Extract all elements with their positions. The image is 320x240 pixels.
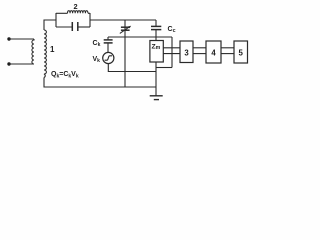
box 4 bbox=[206, 41, 221, 63]
link Zm to 3 (upper) bbox=[163, 47, 180, 49]
wire (tank bottom branch left) bbox=[56, 26, 72, 28]
wire (ground vertical) bbox=[155, 62, 157, 96]
capacitor (tank) right plate bbox=[77, 22, 79, 31]
svg-text:Zm: Zm bbox=[152, 43, 161, 51]
wire (Ck to source) bbox=[107, 43, 109, 52]
link 4 to 5 (lower) bbox=[221, 53, 234, 55]
transformer 1 primary winding bbox=[32, 39, 34, 64]
svg-text:Cc: Cc bbox=[168, 26, 176, 34]
capacitor (tank) left plate bbox=[71, 22, 73, 31]
svg-text:4: 4 bbox=[211, 48, 216, 57]
capacitor Cc bottom plate bbox=[151, 29, 161, 31]
wire (Cc to Zm) bbox=[155, 30, 157, 41]
capacitor Cc stub bbox=[155, 20, 157, 26]
source Vk circle bbox=[103, 52, 114, 63]
svg-text:3: 3 bbox=[184, 48, 189, 57]
source Vk step symbol bbox=[105, 56, 112, 60]
link 3 to 4 (upper) bbox=[193, 47, 206, 49]
wire (tank bottom branch right) bbox=[78, 26, 90, 28]
link 3 to 4 (lower) bbox=[193, 53, 206, 55]
wire (bypass bottom) bbox=[156, 67, 172, 69]
capacitor Ck bottom plate bbox=[104, 42, 113, 44]
link 4 to 5 (upper) bbox=[221, 47, 234, 49]
ground bbox=[150, 95, 163, 97]
link Zm to 3 (lower) bbox=[163, 53, 180, 55]
impedance box Zm bbox=[150, 41, 163, 63]
wire (bypass down) bbox=[171, 37, 173, 68]
box 5 bbox=[234, 41, 248, 63]
svg-text:Vk: Vk bbox=[93, 56, 101, 64]
svg-text:Ck: Ck bbox=[93, 40, 101, 48]
svg-text:Qk=CkVk: Qk=CkVk bbox=[51, 71, 79, 80]
wire bbox=[9, 63, 34, 65]
variable capacitor arrow bbox=[120, 27, 130, 34]
input terminal dot (top) bbox=[7, 37, 10, 40]
wire (middle rail) bbox=[108, 36, 172, 38]
wire (tank circuit left side) bbox=[55, 13, 57, 27]
svg-text:1: 1 bbox=[50, 45, 55, 54]
wire (tank circuit right side) bbox=[89, 13, 91, 27]
svg-text:2: 2 bbox=[73, 2, 77, 11]
transformer 1 secondary winding bbox=[44, 30, 46, 78]
variable capacitor top plate bbox=[121, 26, 130, 28]
wire (source return) bbox=[108, 64, 156, 72]
wire (tank top branch left) bbox=[56, 12, 68, 14]
capacitor Cc top plate bbox=[151, 25, 161, 27]
box 3 bbox=[180, 41, 193, 63]
wire (secondary top lead) bbox=[44, 20, 56, 30]
inductor 2 bbox=[68, 11, 89, 14]
input terminal dot (bottom) bbox=[7, 62, 10, 65]
wire (tank top branch right) bbox=[88, 12, 90, 14]
capacitor Ck stub bbox=[107, 37, 109, 39]
wire bbox=[9, 38, 34, 40]
svg-text:5: 5 bbox=[239, 48, 244, 57]
capacitor Ck top plate bbox=[104, 39, 113, 41]
wire (variable capacitor branch) bbox=[124, 20, 126, 87]
wire (top rail) bbox=[90, 19, 156, 21]
variable capacitor bottom plate bbox=[121, 29, 130, 31]
wire (bottom rail) bbox=[44, 78, 156, 88]
